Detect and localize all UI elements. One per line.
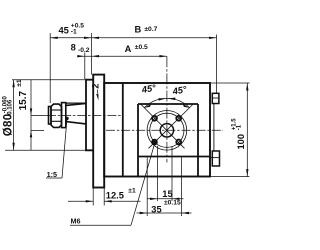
hex nut: [51, 104, 62, 127]
arrowheads 45° arc center: [158, 98, 166, 101]
svg-text:45: 45: [59, 26, 69, 36]
pump body outline: [104, 83, 210, 177]
port face line between tabs: [213, 104, 215, 152]
M6 leader: [131, 144, 155, 225]
Ø80 dimension line: [13, 80, 15, 151]
extension line x=50: [49, 33, 51, 103]
15 dimension line: [147, 198, 184, 200]
shaft nut retaining plate: [49, 107, 52, 125]
pilot boss (Ø80 spigot, side view): [86, 80, 93, 151]
dim 2 (rotated): [91, 84, 102, 89]
15.7 dimension line: [30, 80, 32, 150]
face square bottom edge: [138, 156, 210, 158]
15 extension lines: [157, 146, 159, 201]
extension line x=216.5 (B): [216, 35, 218, 94]
arrowhead 2 leader: [96, 94, 98, 101]
svg-text:15: 15: [162, 189, 172, 199]
svg-text:M6: M6: [71, 217, 81, 226]
tapered shaft 1:5 bottom edge: [66, 122, 86, 124]
svg-text:-0.2: -0.2: [78, 47, 90, 54]
svg-text:A: A: [125, 44, 132, 54]
2 dimension leader: [96, 90, 99, 97]
svg-text:8: 8: [71, 43, 76, 53]
extension line pilot top: [12, 79, 86, 81]
svg-text:100: 100: [236, 134, 246, 150]
svg-text:2: 2: [91, 84, 102, 89]
dim 100 (rotated): [236, 134, 246, 150]
face square right edge: [197, 104, 199, 177]
face square top edge: [138, 103, 198, 105]
svg-text:-0.106: -0.106: [8, 99, 14, 117]
arrowheads top dimension line: [50, 37, 58, 39]
svg-text:-1: -1: [71, 29, 77, 36]
dim 15.7 (rotated): [18, 90, 29, 110]
bolt hole bottom-left (filled, M6): [152, 139, 158, 145]
45 degree diagonal construction lines: [141, 104, 185, 148]
svg-text:35: 35: [151, 205, 161, 215]
dim Ø80 (rotated): [3, 114, 15, 137]
bolt hole bottom-right: [176, 140, 181, 145]
bolt circle: [150, 113, 184, 147]
centerline body horizontal: [106, 129, 223, 131]
flange plate: [93, 75, 104, 188]
centerline face vertical: [166, 56, 168, 162]
face square left edge: [137, 104, 139, 177]
svg-text:B: B: [135, 25, 142, 35]
35 extension lines: [146, 158, 148, 217]
svg-text:±0.7: ±0.7: [144, 26, 157, 33]
12.5 dimension line: [68, 200, 93, 202]
svg-text:±1: ±1: [128, 188, 136, 195]
port boss upper tab: [212, 93, 219, 103]
45° labels: [140, 83, 157, 96]
35 dimension line: [137, 212, 192, 214]
centerline shaft axis: [47, 114, 123, 116]
svg-text:±1: ±1: [16, 79, 23, 87]
tapered shaft 1:5 top edge: [66, 103, 86, 105]
arrowheads 12.5: [86, 200, 94, 202]
dimension line 8 / A: [77, 55, 167, 57]
svg-text:±0.5: ±0.5: [135, 44, 148, 51]
svg-text:±0.15: ±0.15: [164, 199, 181, 206]
arrowheads 35: [140, 212, 148, 214]
arrowheads 8 / A dimension: [77, 55, 85, 57]
svg-text:15.7: 15.7: [18, 90, 29, 110]
arrowheads 100: [246, 83, 248, 91]
extension line pilot bottom: [5, 149, 86, 151]
washer: [62, 103, 66, 128]
extension line body top right: [211, 82, 250, 84]
center shaft circle (front face): [160, 124, 173, 137]
dimension line 100: [246, 83, 248, 177]
extension line x=91.5: [91, 33, 93, 75]
arrowheads 15: [150, 198, 158, 200]
body segment line: [122, 83, 124, 177]
pilot circle on face: [147, 111, 187, 151]
1:5 leader: [62, 118, 67, 178]
bolt hole top-right: [176, 116, 181, 121]
extension line body bottom right: [211, 176, 250, 178]
dimension texts: [3, 22, 247, 225]
bolt hole top-left: [152, 116, 157, 121]
dimension line 45 / B: [50, 37, 217, 39]
arrowheads 15.7: [30, 108, 32, 115]
45 degree dimension arc: [144, 98, 189, 107]
port boss lower tab: [212, 151, 219, 166]
arrowheads 45° arc: [144, 104, 151, 108]
extension line x=84.8: [84, 53, 86, 80]
shaft key top edge: [66, 102, 86, 104]
arrowheads Ø80: [12, 80, 14, 88]
12.5 extension lines: [92, 188, 94, 206]
svg-text:-1: -1: [237, 124, 243, 130]
svg-text:12.5: 12.5: [106, 191, 124, 201]
svg-text:1:5: 1:5: [47, 170, 57, 179]
leader dot on taper: [65, 117, 68, 120]
